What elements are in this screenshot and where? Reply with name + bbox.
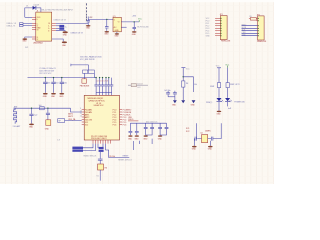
svg-text:GND: GND [242,34,247,36]
svg-text:GND: GND [208,149,213,151]
frame column marks [85,3,88,21]
pin row 4 [215,25,220,27]
svg-text:JP1: JP1 [220,14,223,16]
pin VDD_PA [82,119,85,121]
svg-text:PROG DEC1 DEC2: PROG DEC1 DEC2 [91,138,107,140]
pin D- [32,23,36,25]
antenna E1 [14,108,17,124]
pin row 3 [215,22,220,24]
pin S2 [32,38,36,40]
pin right 4 [52,30,56,32]
wire bead down [84,73,86,78]
ground [217,111,222,113]
svg-text:GND: GND [63,35,68,37]
svg-text:SWDIO SWCLK: SWDIO SWCLK [83,155,97,157]
wire bead to rail [93,73,95,77]
wire RF label to ANT2 [65,120,82,122]
svg-text:16MHz: 16MHz [205,130,211,132]
svg-text:led2: led2 [228,108,231,110]
svg-text:VCC VCC VCC: VCC VCC VCC [39,73,52,75]
svg-text:PINHD-1X8: PINHD-1X8 [221,41,230,43]
svg-text:100n: 100n [63,83,67,85]
pin row 2 [256,20,257,22]
svg-text:D+: D+ [48,28,50,30]
capacitor C4 [95,78,97,96]
ground [158,135,162,137]
svg-text:USB-MINI-B: USB-MINI-B [33,42,43,44]
pin right 2 [52,25,56,27]
svg-text:SH: SH [37,30,39,32]
resistor RD2 [20,25,23,27]
pin VBUS [32,16,36,18]
pin ANT1 [82,114,85,116]
pin right P1.4 [120,119,123,121]
junction [106,19,107,20]
wire regulator output [121,21,139,23]
capacitor C1 [43,77,50,93]
svg-text:RESET: RESET [123,155,130,157]
connector J1 USB-MINI-B [36,12,52,41]
svg-text:GND: GND [115,30,120,32]
pin row 6 [215,30,220,32]
wire prog pins [98,144,103,148]
pin XC1 [82,121,85,123]
svg-text:VCC_NRF 3V3 RF: VCC_NRF 3V3 RF [80,59,96,61]
resistor R1 [182,81,185,87]
ground [86,25,91,27]
wire reset [106,144,130,158]
capacitor C8 [108,78,110,96]
svg-text:GND: GND [143,138,148,140]
svg-text:C4 C5 C6 C7 C8: C4 C5 C6 C7 C8 [96,80,108,82]
connector JP2 [258,16,265,40]
ground [63,31,68,33]
svg-text:XC2: XC2 [186,131,189,133]
ground regulator pin [116,32,118,33]
svg-text:24GHZ SOC: 24GHZ SOC [94,105,105,107]
ferrite bead FB3 [128,84,148,86]
ground [192,146,197,148]
svg-text:JP2: JP2 [257,15,260,17]
bottom pins [93,140,111,144]
ground arrow 1 [173,100,177,103]
pin S1 [32,36,36,38]
wire LED2 chain [227,68,229,83]
svg-text:S1: S1 [96,175,98,177]
wire pin feed [128,120,138,122]
svg-text:10k: 10k [194,84,197,86]
pin ANT2 [82,116,85,118]
MCU U1 [84,95,119,140]
junction [134,21,135,22]
inductor L4 [88,70,94,73]
svg-text:GND: GND [134,138,139,140]
svg-text:3n9: 3n9 [39,105,42,107]
pin right P1.6 [120,124,123,126]
capacitor C23 [212,137,213,141]
capacitor C15 [174,91,176,100]
svg-text:S1: S1 [37,37,39,39]
diode D1 [33,6,36,10]
pin right P1.5 [120,121,123,123]
capacitor C22 [195,137,196,141]
capacitor C11 [46,108,50,120]
wire LED2 down [227,102,229,107]
pin row 6 [242,30,258,32]
ground [51,93,56,95]
ground [22,38,27,40]
pin right P1.2 [120,114,123,116]
svg-text:+3V3: +3V3 [132,16,136,18]
svg-text:330R 1.8 TX: 330R 1.8 TX [230,84,241,86]
capacitor C13 input [87,17,89,26]
svg-text:12: 12 [80,116,82,118]
capacitor C6 [102,78,104,96]
svg-text:GND: GND [132,34,137,36]
component FB2 [82,79,87,83]
svg-text:ANT1: ANT1 [68,113,73,116]
wire bank lower rail [96,92,112,94]
pin P0.1 [82,111,85,113]
LED2 [225,98,232,102]
pin row 1 [256,17,257,19]
ferrite bead FB1 [83,70,88,73]
wire LED1 to ground [218,102,220,111]
pin 2 [32,18,36,20]
capacitor C20 [159,123,161,135]
svg-text:PWM_1: PWM_1 [206,102,212,104]
pin ID [32,27,36,29]
label flag small 1 [99,147,104,149]
pin GND [32,29,36,31]
svg-text:USB_5V ESD PROTECTED_BUS INPUT: USB_5V ESD PROTECTED_BUS INPUT [41,9,75,11]
wire USB D lines left [23,24,32,26]
resistor R3 [217,83,220,88]
capacitor C5 [99,78,101,96]
pin right P1.3 [120,116,123,118]
power flag green [227,66,229,68]
svg-text:330R: 330R [210,86,215,88]
wire D- stub [56,25,59,27]
svg-text:ANT2: ANT2 [68,115,73,118]
decoupling bank junctions [95,77,109,78]
pin VO right [52,22,56,24]
pin right P1.0 [120,109,123,111]
pin P0.0 [82,109,85,111]
svg-text:P1.6: P1.6 [123,124,127,126]
wire ferrite rail [71,64,89,66]
junction [183,76,184,77]
wire switch down [99,170,101,181]
capacitor C21 [160,123,166,135]
capacitor C2 [51,77,58,93]
ground [128,135,132,137]
ground [135,135,139,137]
wire to LED1 [218,88,220,98]
wire LED1 chain [218,68,220,83]
svg-text:USB-D- TX: USB-D- TX [7,25,17,27]
pin right 3 [52,27,56,29]
cap plates bank [94,85,113,86]
wire branch right [183,77,193,92]
ground [132,31,137,33]
svg-text:VBUS: VBUS [37,17,41,19]
pin D+ [32,25,36,27]
pin row 8 [242,35,258,37]
svg-text:XC2: XC2 [85,124,88,126]
wire D+ stub [56,27,59,29]
wire VBUS pin connect [25,16,32,18]
regulator IC1 [113,17,121,32]
supply bar VCC mid [181,67,185,69]
wire cap join [168,96,175,98]
inductor L1 [40,107,45,110]
capacitor C in [106,19,108,31]
wire 5V rail to regulator [88,18,113,20]
label flag small 2 [99,150,104,152]
wire VBUS to regulator rail [56,22,88,24]
resistor R4 [226,83,229,88]
wire into beads [88,65,90,70]
svg-text:1p2: 1p2 [34,115,37,117]
svg-text:D1: D1 [26,5,28,7]
svg-text:GND: GND [104,34,109,36]
ground [105,31,110,33]
pin row 8 [215,35,220,37]
svg-text:GND: GND [191,105,196,107]
wire ID to ground [56,30,65,33]
svg-text:J1: J1 [36,11,38,13]
svg-text:R6: R6 [105,168,107,170]
wire flag2 to pin [83,144,96,151]
pin row 7 [215,32,220,34]
svg-text:100n: 100n [47,83,51,85]
capacitor C17 [136,123,138,135]
svg-text:USB5V0 1.8 TX: USB5V0 1.8 TX [71,32,84,34]
svg-text:Q1: Q1 [200,132,202,134]
capacitor C19 [146,123,152,135]
capacitor C16 [129,123,131,135]
resistor RD1 [20,23,23,25]
label flag P2.1 [72,149,83,151]
svg-text:XC1: XC1 [186,128,189,130]
power flag VCC [138,20,140,22]
ground arrow 3 [192,100,196,103]
ground [43,93,48,95]
capacitor C3 [60,77,67,93]
svg-text:RESET_BTN 1.8: RESET_BTN 1.8 [118,160,131,162]
pin row 2 [215,20,220,22]
pin XC2 [82,124,85,126]
svg-text:VB: VB [48,23,50,25]
svg-text:D+: D+ [37,23,39,25]
pin row 5 [215,27,220,29]
wire VBUS vertical to diode [25,8,33,17]
svg-text:BLM-18: BLM-18 [137,84,143,86]
svg-text:GND: GND [59,96,64,98]
svg-text:GND: GND [206,36,211,38]
connector JP1 [220,16,227,40]
pin dots JP2 [257,18,260,36]
label flag RF [58,119,65,123]
svg-text:GND: GND [192,149,197,151]
svg-text:GND: GND [43,96,48,98]
wire S2 to ground [52,39,64,41]
ground [29,124,34,126]
wire shield to ground [25,37,32,38]
svg-text:100n: 100n [55,83,59,85]
svg-text:GND: GND [22,41,27,43]
wire stub right [133,141,135,150]
capacitor C14 [167,91,169,97]
ground [208,146,213,148]
svg-text:MCP1700-330: MCP1700-330 [137,26,148,28]
svg-text:1.8: 1.8 [57,140,59,142]
pin right P1.1 [120,111,123,113]
wire resistor down [182,87,184,100]
wire XC1 [196,123,197,138]
svg-text:3V3: 3V3 [25,47,28,49]
svg-text:IC1: IC1 [113,16,116,18]
svg-text:2n2 33n: 2n2 33n [164,90,170,92]
ground [144,135,148,137]
supply bar LED chain [217,67,221,69]
rail caps right [130,122,166,124]
label flag D+ [59,28,64,30]
ground [62,41,67,43]
svg-text:GND: GND [45,129,50,131]
capacitor C10 [29,108,37,124]
svg-text:LL4148: LL4148 [33,4,39,6]
balun X1 [46,120,51,126]
label flag D- [59,25,64,27]
svg-text:P1.6: P1.6 [113,124,117,126]
capacitor C18 [145,123,147,135]
switch S1 [98,164,104,170]
capacitor C out [133,22,135,31]
wire VCC rail [28,77,97,79]
svg-text:USB5V0 1.8 TX: USB5V0 1.8 TX [54,20,67,22]
capacitor C7 [105,78,107,96]
ground [59,93,64,95]
wire antenna to ANT1 [71,108,82,112]
wire diode to connector top [36,8,41,12]
capacitor C24 [99,152,101,164]
label flag P2.0 [72,147,83,149]
wire stub gnd1 [140,139,153,144]
wire XC2 [213,123,221,138]
svg-text:PINHD-1X8: PINHD-1X8 [257,41,266,43]
pin row 7 [242,32,258,34]
wire EN stub [121,26,126,28]
wire pullup [182,68,184,81]
svg-text:FB1 BLM18: FB1 BLM18 [80,86,89,88]
pin row 5 [242,27,258,29]
LED1 [217,98,224,102]
crystal Q1 [202,135,208,143]
capacitor C9 [111,78,113,96]
ground arrow 2 [181,100,185,103]
svg-text:S2: S2 [37,39,39,41]
resistor R jumper [250,18,256,21]
wire to LED2 [227,88,229,98]
wire antenna rail [14,107,71,109]
svg-text:R5 10k: R5 10k [109,156,115,158]
pin row 1 [215,17,220,19]
pin row 4 [242,25,258,27]
svg-text:POWER LED: POWER LED [234,102,245,104]
svg-text:R9: R9 [249,16,251,18]
svg-text:2.4G ANT: 2.4G ANT [13,125,22,128]
wire flag to pin [83,144,93,148]
